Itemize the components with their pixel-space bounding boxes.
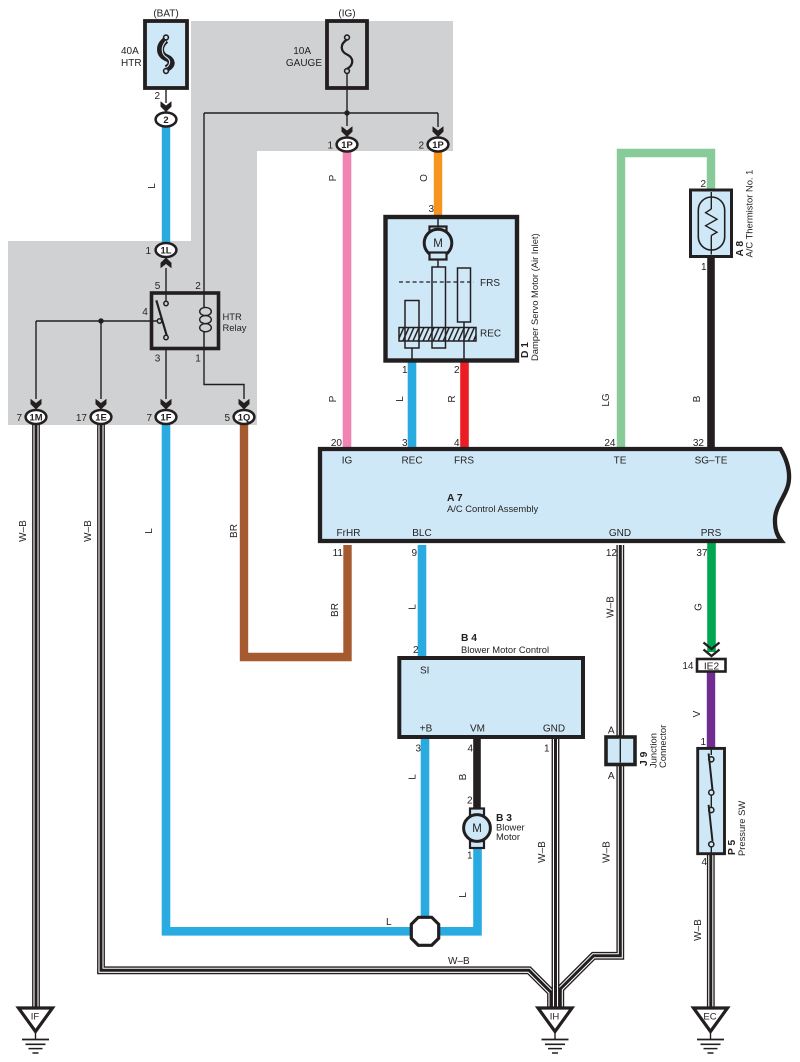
svg-text:A/C Thermistor No. 1: A/C Thermistor No. 1 — [744, 170, 755, 258]
svg-text:+B: +B — [420, 724, 433, 735]
svg-text:SG–TE: SG–TE — [695, 456, 728, 467]
svg-text:3: 3 — [155, 354, 161, 365]
wire fuse 10A down to junction — [346, 74, 348, 126]
svg-text:P: P — [328, 174, 339, 181]
svg-text:IG: IG — [342, 456, 353, 467]
wire relay pin 3 down to 1F — [165, 348, 167, 399]
svg-text:10A: 10A — [293, 46, 311, 57]
svg-text:1: 1 — [402, 365, 408, 376]
wire R red D1 pin2 to A7 FRS — [460, 360, 469, 449]
svg-text:LG: LG — [601, 393, 612, 407]
svg-text:3: 3 — [402, 438, 408, 449]
ground EC — [694, 1008, 728, 1053]
svg-text:11: 11 — [333, 548, 344, 559]
svg-text:4: 4 — [454, 438, 460, 449]
svg-text:1F: 1F — [161, 411, 172, 422]
svg-text:W–B: W–B — [448, 956, 470, 967]
svg-text:VM: VM — [470, 724, 485, 735]
arrow into connector 2 — [161, 101, 172, 112]
connector 1Q — [224, 410, 254, 424]
svg-text:1P: 1P — [341, 139, 352, 150]
wire L blue fuse to 1L — [162, 127, 170, 243]
svg-text:PRS: PRS — [701, 528, 722, 539]
svg-text:1M: 1M — [29, 411, 42, 422]
svg-text:IF: IF — [31, 1012, 40, 1023]
svg-text:W–B: W–B — [602, 841, 613, 863]
svg-text:BR: BR — [229, 524, 240, 538]
wire pin4 down to 1M — [35, 321, 37, 399]
svg-text:1: 1 — [701, 262, 707, 273]
wire relay pin 1 to 1Q — [204, 348, 244, 399]
connector 1P — [418, 138, 448, 152]
svg-text:2: 2 — [454, 365, 460, 376]
svg-text:2: 2 — [700, 179, 706, 190]
svg-text:2: 2 — [154, 91, 160, 102]
arrow into connector 1Q — [239, 399, 250, 410]
wire W-B 1M to ground IF — [32, 424, 40, 1009]
wire L blue D1 pin1 to A7 REC — [408, 360, 417, 449]
svg-text:1: 1 — [467, 851, 473, 862]
svg-text:7: 7 — [146, 413, 152, 424]
svg-text:M: M — [472, 823, 482, 835]
wire P pink 1P to A7 IG — [343, 152, 352, 449]
svg-text:1: 1 — [195, 354, 201, 365]
svg-text:A/C Control Assembly: A/C Control Assembly — [447, 503, 538, 514]
svg-text:1: 1 — [544, 744, 550, 755]
svg-text:Relay: Relay — [223, 322, 247, 333]
svg-text:GND: GND — [543, 724, 565, 735]
svg-text:W–B: W–B — [606, 596, 617, 618]
wire W-B P5 to ground EC — [707, 854, 715, 1009]
motor B3 Blower Motor — [464, 796, 525, 862]
connector 1P — [327, 138, 357, 152]
svg-text:(IG): (IG) — [338, 9, 355, 20]
svg-text:L: L — [144, 528, 155, 534]
connector 1E — [76, 410, 112, 424]
svg-text:Motor: Motor — [496, 831, 520, 842]
svg-text:L: L — [458, 892, 469, 898]
svg-text:3: 3 — [428, 204, 434, 215]
wire IG horizontal rail — [204, 112, 438, 114]
wire L blue A7 BLC to B4 SI — [418, 545, 427, 660]
svg-text:V: V — [692, 710, 703, 717]
svg-text:HTR: HTR — [121, 58, 142, 69]
svg-text:REC: REC — [480, 329, 501, 340]
svg-text:O: O — [419, 174, 430, 182]
svg-text:B: B — [458, 773, 469, 780]
svg-text:B 4: B 4 — [461, 633, 477, 644]
wire BR brown 1Q to A7 FrHR — [244, 424, 348, 657]
svg-text:L: L — [408, 774, 419, 780]
arrow into connector 1F — [161, 399, 172, 410]
svg-text:12: 12 — [606, 548, 618, 559]
wire LG green A7 TE to A8 — [621, 153, 711, 449]
connector 2 — [156, 113, 177, 127]
junction dot on pin4 wire — [98, 318, 103, 323]
wire junction down to 1E — [100, 321, 102, 399]
svg-text:1: 1 — [700, 737, 706, 748]
connector 1M — [16, 410, 46, 424]
svg-text:IH: IH — [550, 1012, 560, 1023]
svg-text:5: 5 — [155, 281, 161, 292]
svg-text:2: 2 — [413, 645, 419, 656]
wire IG rail down to 1P pin 2 — [437, 113, 439, 127]
arrow into connector 1P pin1 — [342, 126, 353, 137]
svg-text:W–B: W–B — [18, 520, 29, 542]
svg-text:5: 5 — [224, 413, 230, 424]
svg-text:W–B: W–B — [83, 520, 94, 542]
svg-text:M: M — [433, 238, 443, 250]
svg-text:L: L — [408, 604, 419, 610]
wire W-B A7 GND via J9 to ground IH — [560, 545, 620, 1009]
relay HTR Relay — [142, 281, 247, 365]
svg-text:BLC: BLC — [412, 528, 431, 539]
controller B4 Blower Motor Control — [399, 633, 583, 755]
fuse 40A HTR — [121, 9, 187, 103]
svg-text:4: 4 — [467, 744, 473, 755]
svg-text:FRS: FRS — [480, 278, 500, 289]
svg-text:37: 37 — [696, 548, 708, 559]
wire L blue B4 +B to splice — [421, 735, 430, 920]
svg-text:Damper Servo Motor (Air Inlet): Damper Servo Motor (Air Inlet) — [529, 233, 540, 361]
thermistor A8 A/C Thermistor No. 1 — [691, 170, 755, 273]
wire G green A7 PRS to IE2 — [707, 543, 716, 652]
wire B black B4 VM to blower motor — [473, 735, 481, 810]
wire W-B 1E to ground IH — [101, 424, 551, 1009]
arrow into connector 1L — [161, 258, 172, 269]
svg-text:1L: 1L — [161, 244, 172, 255]
svg-text:BR: BR — [330, 603, 341, 617]
servo motor D1 Damper Servo Motor (Air Inlet) — [386, 204, 541, 376]
svg-text:FRS: FRS — [454, 456, 474, 467]
wire IG rail down to relay pin 2 — [203, 113, 205, 293]
svg-text:FrHR: FrHR — [337, 528, 361, 539]
junction connector J9 — [606, 725, 668, 782]
svg-text:17: 17 — [76, 413, 88, 424]
svg-text:Pressure SW: Pressure SW — [736, 801, 747, 856]
svg-text:2: 2 — [195, 281, 201, 292]
svg-text:2: 2 — [467, 796, 473, 807]
connector 1L — [145, 243, 176, 257]
svg-text:Blower Motor Control: Blower Motor Control — [461, 644, 549, 655]
svg-text:A: A — [608, 771, 615, 782]
arrow into connector 1E — [96, 399, 107, 410]
wire L blue splice to blower motor — [437, 845, 478, 931]
fuse 10A GAUGE — [286, 9, 367, 89]
svg-text:1Q: 1Q — [238, 411, 251, 422]
svg-text:14: 14 — [682, 661, 694, 672]
wire W-B B4 GND to ground IH — [552, 737, 560, 1009]
svg-text:GND: GND — [609, 528, 631, 539]
connector IE2 — [682, 643, 725, 673]
svg-text:IE2: IE2 — [704, 661, 720, 672]
svg-text:Connector: Connector — [657, 725, 668, 768]
svg-text:40A: 40A — [121, 46, 139, 57]
svg-text:L: L — [147, 183, 158, 189]
wire V violet IE2 to P5 — [707, 671, 715, 749]
svg-text:A: A — [608, 726, 615, 737]
svg-text:GAUGE: GAUGE — [286, 58, 322, 69]
arrow into connector 1P pin2 — [433, 126, 444, 137]
svg-text:HTR: HTR — [223, 311, 242, 322]
svg-text:1P: 1P — [432, 139, 443, 150]
svg-text:1: 1 — [327, 141, 333, 152]
svg-text:32: 32 — [693, 438, 705, 449]
arrow into connector 1M — [31, 399, 42, 410]
svg-text:20: 20 — [331, 438, 343, 449]
svg-text:G: G — [694, 603, 705, 611]
splice octagon — [411, 917, 438, 945]
ground IF — [19, 1008, 53, 1053]
svg-text:(BAT): (BAT) — [153, 9, 178, 20]
wire B black A8 to A7 SG-TE — [707, 254, 715, 449]
svg-text:P: P — [328, 395, 339, 402]
ECU A7 A/C Control Assembly — [320, 438, 789, 559]
svg-text:4: 4 — [701, 857, 707, 868]
svg-text:1E: 1E — [95, 411, 106, 422]
connector 1F — [146, 410, 176, 424]
svg-text:24: 24 — [604, 438, 616, 449]
gray harness region — [8, 21, 453, 425]
svg-text:B: B — [692, 395, 703, 402]
svg-text:1: 1 — [145, 246, 151, 257]
svg-text:L: L — [386, 917, 392, 928]
svg-text:7: 7 — [16, 413, 22, 424]
wire relay pin 4 horizontal — [36, 320, 157, 322]
svg-text:W–B: W–B — [537, 841, 548, 863]
wire O orange 1P to D1 — [434, 152, 442, 219]
wire 1L to relay pin 5 — [165, 268, 167, 301]
wire L blue 1F down and right to splice — [166, 424, 413, 931]
svg-text:R: R — [447, 395, 458, 402]
junction dot below 10A fuse — [344, 110, 349, 115]
ground IH — [538, 1008, 572, 1053]
svg-text:L: L — [395, 396, 406, 402]
svg-text:9: 9 — [411, 548, 417, 559]
svg-text:EC: EC — [703, 1012, 716, 1023]
switch P5 Pressure SW — [698, 737, 747, 868]
svg-text:3: 3 — [415, 744, 421, 755]
svg-text:W–B: W–B — [693, 919, 704, 941]
wire fuse 40A to connector 2 — [165, 74, 167, 103]
svg-text:2: 2 — [163, 114, 168, 125]
svg-text:REC: REC — [401, 456, 422, 467]
svg-text:4: 4 — [142, 307, 148, 318]
svg-text:2: 2 — [418, 141, 424, 152]
svg-text:SI: SI — [420, 666, 429, 677]
svg-text:TE: TE — [614, 456, 627, 467]
